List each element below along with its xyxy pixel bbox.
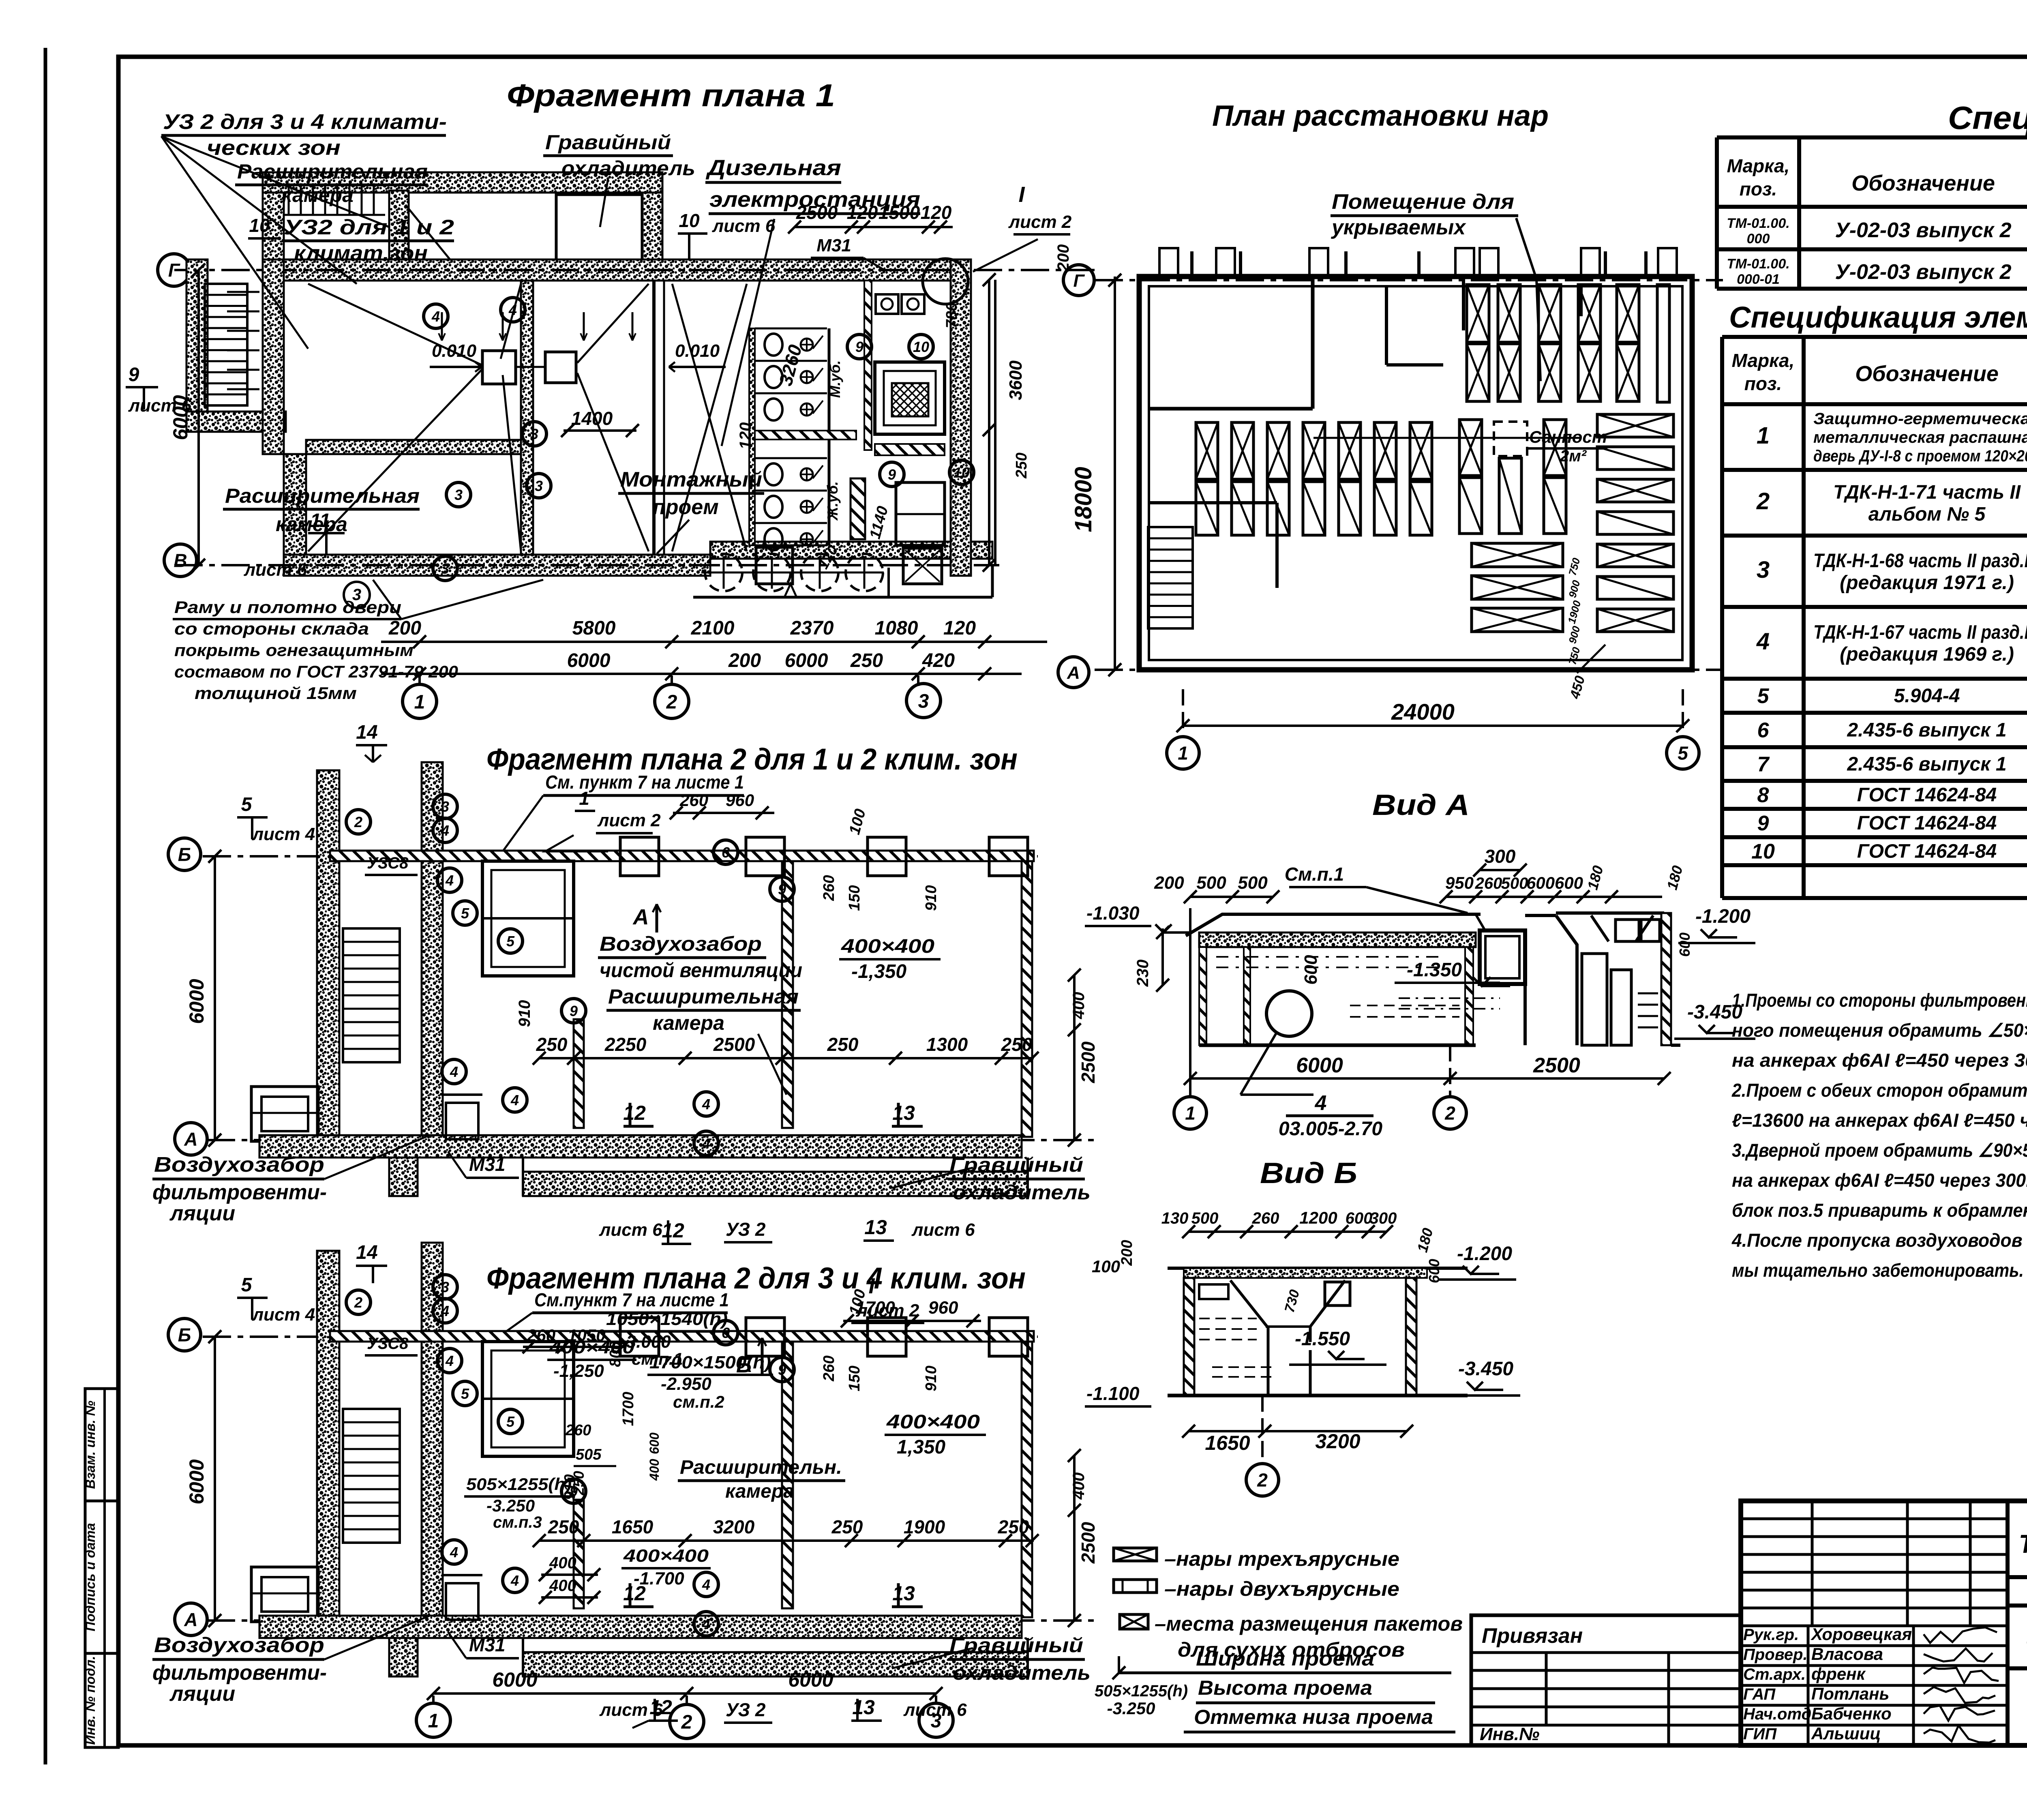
svg-text:12: 12 bbox=[662, 1219, 684, 1242]
svg-text:2370: 2370 bbox=[790, 617, 834, 639]
svg-text:600: 600 bbox=[1526, 873, 1555, 892]
svg-text:Монтажный: Монтажный bbox=[620, 468, 762, 491]
svg-text:Альшиц: Альшиц bbox=[1811, 1724, 1881, 1743]
svg-text:505: 505 bbox=[576, 1446, 602, 1463]
svg-text:250: 250 bbox=[548, 1516, 579, 1537]
svg-text:Провер.: Провер. bbox=[1743, 1646, 1808, 1664]
svg-text:4: 4 bbox=[450, 1063, 458, 1080]
svg-text:6000: 6000 bbox=[185, 1459, 208, 1504]
svg-text:1: 1 bbox=[579, 788, 589, 809]
svg-text:мы тщательно забетонировать.: мы тщательно забетонировать. bbox=[1732, 1260, 2024, 1281]
svg-text:-2.950: -2.950 bbox=[661, 1374, 711, 1394]
svg-text:780: 780 bbox=[943, 302, 960, 328]
svg-text:Воздухозабор: Воздухозабор bbox=[600, 933, 762, 955]
svg-text:18000: 18000 bbox=[1070, 467, 1097, 532]
svg-text:-1.200: -1.200 bbox=[1695, 906, 1751, 927]
svg-text:ГАП: ГАП bbox=[1743, 1685, 1776, 1703]
svg-text:400: 400 bbox=[1070, 992, 1088, 1020]
svg-text:-1.100: -1.100 bbox=[1086, 1383, 1140, 1404]
svg-text:150: 150 bbox=[846, 1366, 863, 1391]
svg-text:Гравийный: Гравийный bbox=[949, 1634, 1083, 1657]
svg-text:400×400: 400×400 bbox=[841, 936, 935, 957]
svg-text:В: В bbox=[174, 550, 187, 571]
svg-text:1200: 1200 bbox=[1299, 1208, 1337, 1227]
svg-text:камера: камера bbox=[725, 1481, 794, 1502]
svg-text:Инв.№: Инв.№ bbox=[1480, 1724, 1539, 1744]
svg-text:3200: 3200 bbox=[713, 1516, 755, 1537]
svg-text:1400: 1400 bbox=[571, 408, 613, 429]
svg-text:Воздухозабор: Воздухозабор bbox=[154, 1153, 324, 1177]
svg-text:ТМ-01.00.: ТМ-01.00. bbox=[1727, 256, 1789, 272]
svg-text:-1.200: -1.200 bbox=[1457, 1243, 1512, 1265]
svg-text:УЗ 2: УЗ 2 bbox=[726, 1219, 766, 1240]
svg-text:покрыть огнезащитным: покрыть огнезащитным bbox=[174, 641, 414, 660]
svg-text:ТДК-Н-1-67 часть II разд.IV: ТДК-Н-1-67 часть II разд.IV bbox=[1813, 622, 2027, 643]
svg-text:6: 6 bbox=[722, 844, 730, 861]
svg-text:А: А bbox=[632, 905, 649, 929]
svg-text:лист 6: лист 6 bbox=[712, 216, 776, 236]
svg-text:Помещение для: Помещение для bbox=[1332, 190, 1514, 214]
svg-text:2.435-6 выпуск 1: 2.435-6 выпуск 1 bbox=[1847, 720, 2006, 741]
svg-text:4.После пропуска воздуховодов: 4.После пропуска воздуховодов прое- bbox=[1731, 1230, 2027, 1251]
svg-text:Инв. № подл.: Инв. № подл. bbox=[83, 1656, 98, 1745]
svg-text:чистой вентиляции: чистой вентиляции bbox=[600, 959, 802, 982]
svg-text:Гравийный: Гравийный bbox=[545, 131, 671, 154]
svg-text:камера: камера bbox=[653, 1012, 724, 1034]
svg-text:Ст.арх.: Ст.арх. bbox=[1743, 1666, 1806, 1683]
svg-text:8: 8 bbox=[1757, 784, 1769, 807]
svg-text:250: 250 bbox=[998, 1516, 1029, 1537]
svg-text:9: 9 bbox=[129, 364, 139, 386]
svg-text:4: 4 bbox=[702, 1096, 710, 1113]
svg-text:200: 200 bbox=[1154, 873, 1184, 893]
svg-text:4: 4 bbox=[431, 308, 440, 325]
svg-text:7: 7 bbox=[1757, 753, 1770, 776]
svg-text:-1,350: -1,350 bbox=[851, 961, 906, 982]
svg-text:3: 3 bbox=[352, 586, 361, 604]
svg-text:френк: френк bbox=[1811, 1664, 1866, 1683]
svg-text:Г: Г bbox=[1073, 271, 1085, 291]
svg-text:Расширительная: Расширительная bbox=[608, 985, 799, 1008]
svg-text:Потлань: Потлань bbox=[1811, 1684, 1889, 1703]
svg-text:камера: камера bbox=[276, 513, 347, 536]
svg-text:Хоровецкая: Хоровецкая bbox=[1811, 1625, 1912, 1644]
svg-text:Ширина проема: Ширина проема bbox=[1196, 1647, 1374, 1670]
svg-text:-3.450: -3.450 bbox=[1458, 1358, 1513, 1380]
svg-text:250: 250 bbox=[1013, 452, 1030, 478]
svg-text:-1.350: -1.350 bbox=[1407, 959, 1462, 981]
svg-text:Марка,: Марка, bbox=[1727, 155, 1790, 176]
svg-text:1050×1540(h): 1050×1540(h) bbox=[606, 1309, 728, 1329]
svg-text:250: 250 bbox=[831, 1516, 863, 1537]
svg-text:лист 6: лист 6 bbox=[903, 1700, 967, 1720]
svg-text:охладитель: охладитель bbox=[953, 1181, 1091, 1204]
svg-text:Воздухозабор: Воздухозабор bbox=[154, 1633, 324, 1657]
svg-text:блок поз.5 приварить к обрамле: блок поз.5 приварить к обрамлению. bbox=[1732, 1200, 2027, 1221]
svg-text:Привязан: Привязан bbox=[1482, 1624, 1583, 1648]
svg-text:5: 5 bbox=[1678, 743, 1688, 764]
svg-text:Взам. инв. №: Взам. инв. № bbox=[83, 1400, 98, 1489]
svg-text:1,350: 1,350 bbox=[897, 1436, 945, 1458]
svg-text:600: 600 bbox=[1346, 1209, 1373, 1227]
svg-text:Нач.отд.: Нач.отд. bbox=[1743, 1705, 1816, 1723]
svg-text:6000: 6000 bbox=[785, 650, 828, 671]
svg-text:фильтровенти-: фильтровенти- bbox=[152, 1661, 327, 1685]
svg-text:4: 4 bbox=[1315, 1091, 1327, 1115]
svg-text:А: А bbox=[1067, 663, 1080, 683]
svg-text:6: 6 bbox=[1757, 719, 1770, 742]
svg-text:200: 200 bbox=[388, 617, 421, 639]
svg-text:Власова: Власова bbox=[1811, 1644, 1883, 1664]
svg-text:400: 400 bbox=[1070, 1473, 1088, 1500]
svg-text:Гравийный: Гравийный bbox=[949, 1153, 1083, 1176]
svg-text:950: 950 bbox=[1445, 873, 1474, 892]
svg-text:4: 4 bbox=[702, 1135, 710, 1152]
svg-text:-3.450: -3.450 bbox=[1687, 1001, 1742, 1023]
svg-text:250: 250 bbox=[536, 1034, 568, 1055]
svg-text:ГИП: ГИП bbox=[1743, 1725, 1777, 1743]
svg-text:Дизельная: Дизельная bbox=[705, 156, 841, 180]
svg-text:400: 400 bbox=[549, 1577, 576, 1595]
svg-text:120: 120 bbox=[737, 422, 754, 450]
svg-text:-1,250: -1,250 bbox=[553, 1361, 604, 1381]
svg-text:1080: 1080 bbox=[875, 617, 918, 639]
svg-text:2: 2 bbox=[1756, 488, 1770, 514]
svg-text:4: 4 bbox=[441, 1303, 449, 1319]
svg-text:5.904-4: 5.904-4 bbox=[1894, 685, 1960, 707]
svg-text:4: 4 bbox=[510, 1092, 519, 1108]
svg-text:2500: 2500 bbox=[1533, 1054, 1580, 1077]
svg-text:А: А bbox=[184, 1609, 197, 1630]
svg-text:фильтровенти-: фильтровенти- bbox=[152, 1181, 327, 1204]
svg-text:3: 3 bbox=[1757, 557, 1770, 583]
svg-text:1700×1500(h): 1700×1500(h) bbox=[649, 1353, 771, 1372]
svg-text:505×1255(h): 505×1255(h) bbox=[466, 1475, 572, 1494]
svg-text:260: 260 bbox=[565, 1422, 591, 1439]
svg-text:2: 2 bbox=[354, 814, 362, 830]
svg-text:9: 9 bbox=[778, 1361, 786, 1378]
svg-text:ТП А-II-600-338.86 -АР альбо: ТП А-II-600-338.86 -АР альбом I,Вып. 2 bbox=[2019, 1529, 2027, 1558]
svg-text:-1.030: -1.030 bbox=[1086, 902, 1140, 924]
svg-text:камера: камера bbox=[282, 184, 354, 206]
svg-text:5: 5 bbox=[241, 1274, 253, 1296]
svg-text:УЗ2 для 1 и 2: УЗ2 для 1 и 2 bbox=[284, 216, 454, 239]
svg-text:лист 2: лист 2 bbox=[1008, 212, 1072, 232]
svg-text:960: 960 bbox=[726, 791, 754, 810]
svg-text:охладитель: охладитель bbox=[953, 1661, 1091, 1684]
svg-text:2: 2 bbox=[1257, 1470, 1268, 1491]
svg-text:ℓ=13600 на анкерах ф6АI ℓ=450: ℓ=13600 на анкерах ф6АI ℓ=450 через 300. bbox=[1732, 1110, 2027, 1131]
svg-text:См.п.1: См.п.1 bbox=[1285, 864, 1344, 885]
svg-text:260: 260 bbox=[1252, 1209, 1279, 1227]
svg-text:М31: М31 bbox=[469, 1634, 505, 1655]
svg-text:10: 10 bbox=[679, 210, 700, 231]
svg-text:130: 130 bbox=[1161, 1209, 1189, 1227]
svg-text:3: 3 bbox=[530, 426, 538, 442]
svg-text:Обозначение: Обозначение bbox=[1851, 171, 1995, 195]
svg-text:910: 910 bbox=[923, 1366, 940, 1391]
svg-text:металлическая распашная: металлическая распашная bbox=[1813, 429, 2027, 446]
svg-text:–нары трехъярусные: –нары трехъярусные bbox=[1164, 1548, 1399, 1570]
svg-text:12: 12 bbox=[623, 1102, 646, 1124]
svg-text:2: 2 bbox=[681, 1711, 692, 1733]
svg-text:260: 260 bbox=[821, 875, 838, 901]
svg-text:400×400: 400×400 bbox=[886, 1411, 980, 1433]
svg-text:Обозначение: Обозначение bbox=[1855, 362, 1999, 386]
svg-text:200: 200 bbox=[1054, 244, 1072, 272]
svg-text:150: 150 bbox=[846, 885, 863, 911]
svg-text:(редакция 1971 г.): (редакция 1971 г.) bbox=[1840, 572, 2014, 594]
svg-text:14: 14 bbox=[356, 722, 377, 743]
svg-text:электростанция: электростанция bbox=[709, 187, 920, 212]
svg-text:960: 960 bbox=[928, 1298, 958, 1318]
svg-text:ГОСТ 14624-84: ГОСТ 14624-84 bbox=[1857, 812, 1997, 834]
svg-text:3: 3 bbox=[535, 478, 543, 494]
svg-text:000-01: 000-01 bbox=[1737, 272, 1780, 287]
svg-text:поз.: поз. bbox=[1740, 178, 1777, 199]
svg-text:4: 4 bbox=[702, 1616, 710, 1632]
svg-text:4: 4 bbox=[450, 1544, 458, 1561]
svg-text:600: 600 bbox=[1676, 933, 1693, 957]
svg-text:А: А bbox=[184, 1129, 197, 1150]
svg-text:03.005-2.70: 03.005-2.70 bbox=[1279, 1118, 1383, 1140]
svg-text:М31: М31 bbox=[469, 1154, 505, 1175]
svg-text:2: 2 bbox=[666, 691, 677, 713]
svg-text:проем: проем bbox=[653, 495, 719, 519]
svg-text:400: 400 bbox=[647, 1459, 662, 1481]
svg-text:5: 5 bbox=[506, 1413, 515, 1430]
svg-text:1: 1 bbox=[1178, 743, 1188, 764]
svg-text:9: 9 bbox=[778, 881, 786, 898]
svg-text:I: I bbox=[1018, 182, 1025, 207]
svg-text:505×1255(h): 505×1255(h) bbox=[1095, 1682, 1188, 1700]
svg-text:2500: 2500 bbox=[713, 1034, 755, 1055]
svg-text:Расширительн.: Расширительн. bbox=[680, 1457, 842, 1478]
svg-text:охладитель: охладитель bbox=[561, 157, 695, 180]
svg-text:2100: 2100 bbox=[691, 617, 735, 639]
svg-text:лист 4: лист 4 bbox=[252, 1305, 315, 1325]
svg-text:Фрагмент плана 2 для 1 и 2 кли: Фрагмент плана 2 для 1 и 2 клим. зон bbox=[486, 742, 1018, 776]
svg-text:3: 3 bbox=[441, 560, 449, 577]
svg-text:ГОСТ 14624-84: ГОСТ 14624-84 bbox=[1857, 785, 1997, 806]
svg-text:9: 9 bbox=[570, 1003, 578, 1019]
svg-text:см.п.3: см.п.3 bbox=[493, 1513, 542, 1531]
svg-text:составом по ГОСТ 23791-79 200: составом по ГОСТ 23791-79 200 bbox=[174, 662, 458, 681]
svg-text:1.Проемы со стороны фильтровен: 1.Проемы со стороны фильтровентиляцион- bbox=[1732, 990, 2027, 1011]
svg-text:6000: 6000 bbox=[567, 650, 611, 671]
svg-text:Рук.гр.: Рук.гр. bbox=[1743, 1626, 1799, 1644]
svg-text:1650: 1650 bbox=[612, 1516, 654, 1537]
svg-text:ГОСТ 14624-84: ГОСТ 14624-84 bbox=[1857, 841, 1997, 862]
svg-text:лист 6: лист 6 bbox=[599, 1220, 662, 1240]
svg-text:3: 3 bbox=[918, 690, 929, 712]
svg-text:Расширительная: Расширительная bbox=[225, 484, 420, 507]
svg-text:Б: Б bbox=[178, 1325, 191, 1346]
svg-text:ческих зон: ческих зон bbox=[207, 136, 341, 160]
svg-text:М31: М31 bbox=[816, 236, 851, 255]
svg-text:12: 12 bbox=[649, 1696, 672, 1719]
svg-text:0.010: 0.010 bbox=[675, 341, 720, 361]
svg-text:поз.: поз. bbox=[1744, 373, 1782, 394]
svg-text:Спецификация элементов заполне: Спецификация элементов заполнения проемо… bbox=[1729, 300, 2027, 334]
svg-text:3200: 3200 bbox=[1315, 1430, 1360, 1453]
svg-text:2.Проем с обеих сторон обрамит: 2.Проем с обеих сторон обрамить ∠50×5 bbox=[1731, 1080, 2027, 1101]
svg-text:4: 4 bbox=[702, 1576, 710, 1593]
svg-text:4: 4 bbox=[1756, 628, 1770, 655]
svg-text:5: 5 bbox=[461, 1385, 469, 1402]
svg-text:300: 300 bbox=[1485, 846, 1516, 867]
svg-text:10: 10 bbox=[1751, 840, 1775, 864]
svg-text:Бабченко: Бабченко bbox=[1811, 1704, 1892, 1723]
svg-text:000: 000 bbox=[1747, 231, 1770, 247]
svg-text:2500: 2500 bbox=[1078, 1041, 1099, 1083]
svg-text:Спецификация нар: Спецификация нар bbox=[1948, 100, 2027, 136]
svg-text:2: 2 bbox=[1444, 1103, 1455, 1124]
svg-text:100: 100 bbox=[1092, 1257, 1120, 1276]
svg-text:Расширительная: Расширительная bbox=[237, 160, 428, 183]
svg-text:1: 1 bbox=[428, 1710, 439, 1732]
svg-text:910: 910 bbox=[923, 885, 940, 911]
svg-text:400×400: 400×400 bbox=[623, 1546, 709, 1566]
svg-text:14: 14 bbox=[356, 1242, 377, 1263]
svg-text:2: 2 bbox=[354, 1294, 362, 1311]
svg-text:24000: 24000 bbox=[1391, 699, 1455, 725]
svg-text:4: 4 bbox=[510, 1572, 519, 1589]
svg-text:5: 5 bbox=[461, 905, 469, 922]
svg-text:250: 250 bbox=[850, 650, 883, 671]
svg-text:на анкерах ф6АI ℓ=450 через 30: на анкерах ф6АI ℓ=450 через 300.Дверной bbox=[1732, 1170, 2027, 1191]
svg-text:13: 13 bbox=[892, 1102, 915, 1124]
svg-text:-3.250: -3.250 bbox=[486, 1496, 535, 1515]
svg-text:1700: 1700 bbox=[855, 1298, 895, 1318]
svg-text:ляции: ляции bbox=[169, 1682, 235, 1706]
svg-text:альбом № 5: альбом № 5 bbox=[1868, 504, 1986, 525]
svg-text:5: 5 bbox=[1757, 684, 1770, 708]
svg-text:1: 1 bbox=[1757, 422, 1770, 449]
svg-text:климат.зон: климат.зон bbox=[294, 242, 428, 265]
svg-text:600: 600 bbox=[1301, 955, 1321, 985]
svg-text:ляции: ляции bbox=[169, 1202, 235, 1225]
svg-text:2250: 2250 bbox=[604, 1034, 647, 1055]
svg-text:лист 4: лист 4 bbox=[252, 824, 315, 844]
svg-text:300: 300 bbox=[1370, 1209, 1397, 1227]
svg-text:на анкерах ф6АI ℓ=450 через 30: на анкерах ф6АI ℓ=450 через 300. bbox=[1732, 1050, 2027, 1071]
svg-text:Вид Б: Вид Б bbox=[1260, 1157, 1357, 1190]
svg-text:500: 500 bbox=[1196, 873, 1226, 893]
svg-text:УЗ 2 для 3 и 4 климати-: УЗ 2 для 3 и 4 климати- bbox=[163, 110, 447, 134]
svg-text:ТДК-Н-1-68 часть II разд.IV: ТДК-Н-1-68 часть II разд.IV bbox=[1813, 550, 2027, 572]
svg-text:См.пункт 7 на листе 1: См.пункт 7 на листе 1 bbox=[534, 1289, 729, 1310]
svg-text:–нары двухъярусные: –нары двухъярусные bbox=[1164, 1578, 1399, 1600]
svg-text:9: 9 bbox=[855, 339, 864, 355]
svg-text:см.п.2: см.п.2 bbox=[673, 1392, 724, 1411]
svg-text:Г: Г bbox=[168, 260, 180, 281]
svg-text:3600: 3600 bbox=[1006, 360, 1026, 400]
svg-text:200: 200 bbox=[1118, 1240, 1136, 1266]
svg-text:5800: 5800 bbox=[572, 617, 616, 639]
svg-text:13: 13 bbox=[892, 1582, 915, 1605]
svg-text:Защитно-герметическая: Защитно-герметическая bbox=[1813, 410, 2027, 428]
svg-text:I: I bbox=[868, 1274, 875, 1298]
svg-text:2м²: 2м² bbox=[1560, 447, 1587, 465]
svg-text:План расстановки нар: План расстановки нар bbox=[1212, 100, 1549, 132]
svg-text:3: 3 bbox=[454, 487, 463, 503]
svg-text:лист 2: лист 2 bbox=[597, 810, 661, 830]
svg-text:260: 260 bbox=[821, 1355, 838, 1381]
svg-text:УЗС8: УЗС8 bbox=[367, 1335, 409, 1353]
svg-text:910: 910 bbox=[561, 1474, 579, 1500]
svg-text:лист 6: лист 6 bbox=[244, 560, 307, 580]
svg-text:1700: 1700 bbox=[620, 1392, 637, 1426]
svg-text:толщиной 15мм: толщиной 15мм bbox=[195, 684, 357, 703]
svg-text:ного помещения обрамить ∠50×5: ного помещения обрамить ∠50×5 ℓ=9100 bbox=[1732, 1020, 2027, 1041]
svg-text:6000: 6000 bbox=[185, 979, 208, 1024]
svg-text:лист 6: лист 6 bbox=[911, 1220, 975, 1240]
svg-text:Марка,: Марка, bbox=[1732, 350, 1795, 371]
svg-text:укрываемых: укрываемых bbox=[1331, 216, 1466, 239]
svg-text:Отметка низа проема: Отметка низа проема bbox=[1194, 1706, 1433, 1728]
svg-text:УЗ 2: УЗ 2 bbox=[726, 1699, 766, 1720]
svg-text:250: 250 bbox=[827, 1034, 859, 1055]
svg-text:М.уб.: М.уб. bbox=[827, 360, 843, 398]
svg-text:-1.550: -1.550 bbox=[1295, 1328, 1350, 1350]
svg-text:ТДК-Н-1-71 часть II: ТДК-Н-1-71 часть II bbox=[1833, 482, 2021, 503]
svg-text:400: 400 bbox=[549, 1554, 576, 1572]
svg-text:10: 10 bbox=[913, 339, 929, 355]
svg-text:Высота проема: Высота проема bbox=[1198, 1676, 1372, 1699]
svg-text:1: 1 bbox=[1185, 1103, 1196, 1124]
svg-text:260: 260 bbox=[1475, 875, 1502, 892]
svg-text:1: 1 bbox=[414, 691, 425, 713]
svg-text:У-02-03 выпуск 2: У-02-03 выпуск 2 bbox=[1835, 260, 2011, 284]
svg-text:6000: 6000 bbox=[788, 1668, 833, 1691]
svg-text:6000: 6000 bbox=[1296, 1054, 1343, 1077]
svg-text:дверь ДУ-I-8 с проемом 120×200: дверь ДУ-I-8 с проемом 120×200 bbox=[1813, 447, 2027, 465]
svg-text:500: 500 bbox=[1238, 873, 1268, 893]
svg-text:6000: 6000 bbox=[492, 1668, 537, 1691]
svg-text:Вид А: Вид А bbox=[1372, 789, 1470, 821]
svg-text:(редакция 1969 г.): (редакция 1969 г.) bbox=[1840, 643, 2014, 665]
svg-text:ТМ-01.00.: ТМ-01.00. bbox=[1727, 216, 1789, 231]
svg-text:9: 9 bbox=[1757, 812, 1769, 835]
svg-text:-1.700: -1.700 bbox=[634, 1569, 684, 1588]
svg-text:4: 4 bbox=[445, 1353, 454, 1369]
svg-text:120: 120 bbox=[921, 202, 952, 223]
svg-text:4: 4 bbox=[445, 872, 454, 889]
svg-text:2.435-6 выпуск 1: 2.435-6 выпуск 1 bbox=[1847, 754, 2006, 775]
svg-text:4: 4 bbox=[508, 302, 517, 318]
svg-text:-3.250: -3.250 bbox=[1107, 1699, 1155, 1718]
svg-text:200: 200 bbox=[728, 650, 761, 671]
svg-text:120: 120 bbox=[943, 617, 976, 639]
svg-text:лист 6: лист 6 bbox=[128, 396, 192, 416]
svg-text:4: 4 bbox=[441, 822, 449, 839]
svg-text:3: 3 bbox=[441, 798, 449, 815]
svg-text:5: 5 bbox=[241, 794, 253, 815]
svg-text:УЗС8: УЗС8 bbox=[367, 854, 409, 872]
svg-text:–места размещения пакетов: –места размещения пакетов bbox=[1155, 1612, 1463, 1635]
svg-text:со стороны склада: со стороны склада bbox=[174, 619, 369, 638]
svg-text:230: 230 bbox=[1134, 960, 1152, 987]
svg-text:Фрагмент плана 1: Фрагмент плана 1 bbox=[507, 77, 835, 113]
svg-text:См. пункт 7 на листе 1: См. пункт 7 на листе 1 bbox=[545, 772, 744, 793]
svg-text:Ж.уб.: Ж.уб. bbox=[824, 481, 841, 521]
svg-text:9: 9 bbox=[888, 466, 896, 483]
svg-text:13: 13 bbox=[864, 1216, 887, 1239]
svg-text:2500: 2500 bbox=[1078, 1522, 1099, 1564]
svg-text:1650: 1650 bbox=[1205, 1432, 1250, 1454]
svg-text:10: 10 bbox=[249, 215, 270, 236]
